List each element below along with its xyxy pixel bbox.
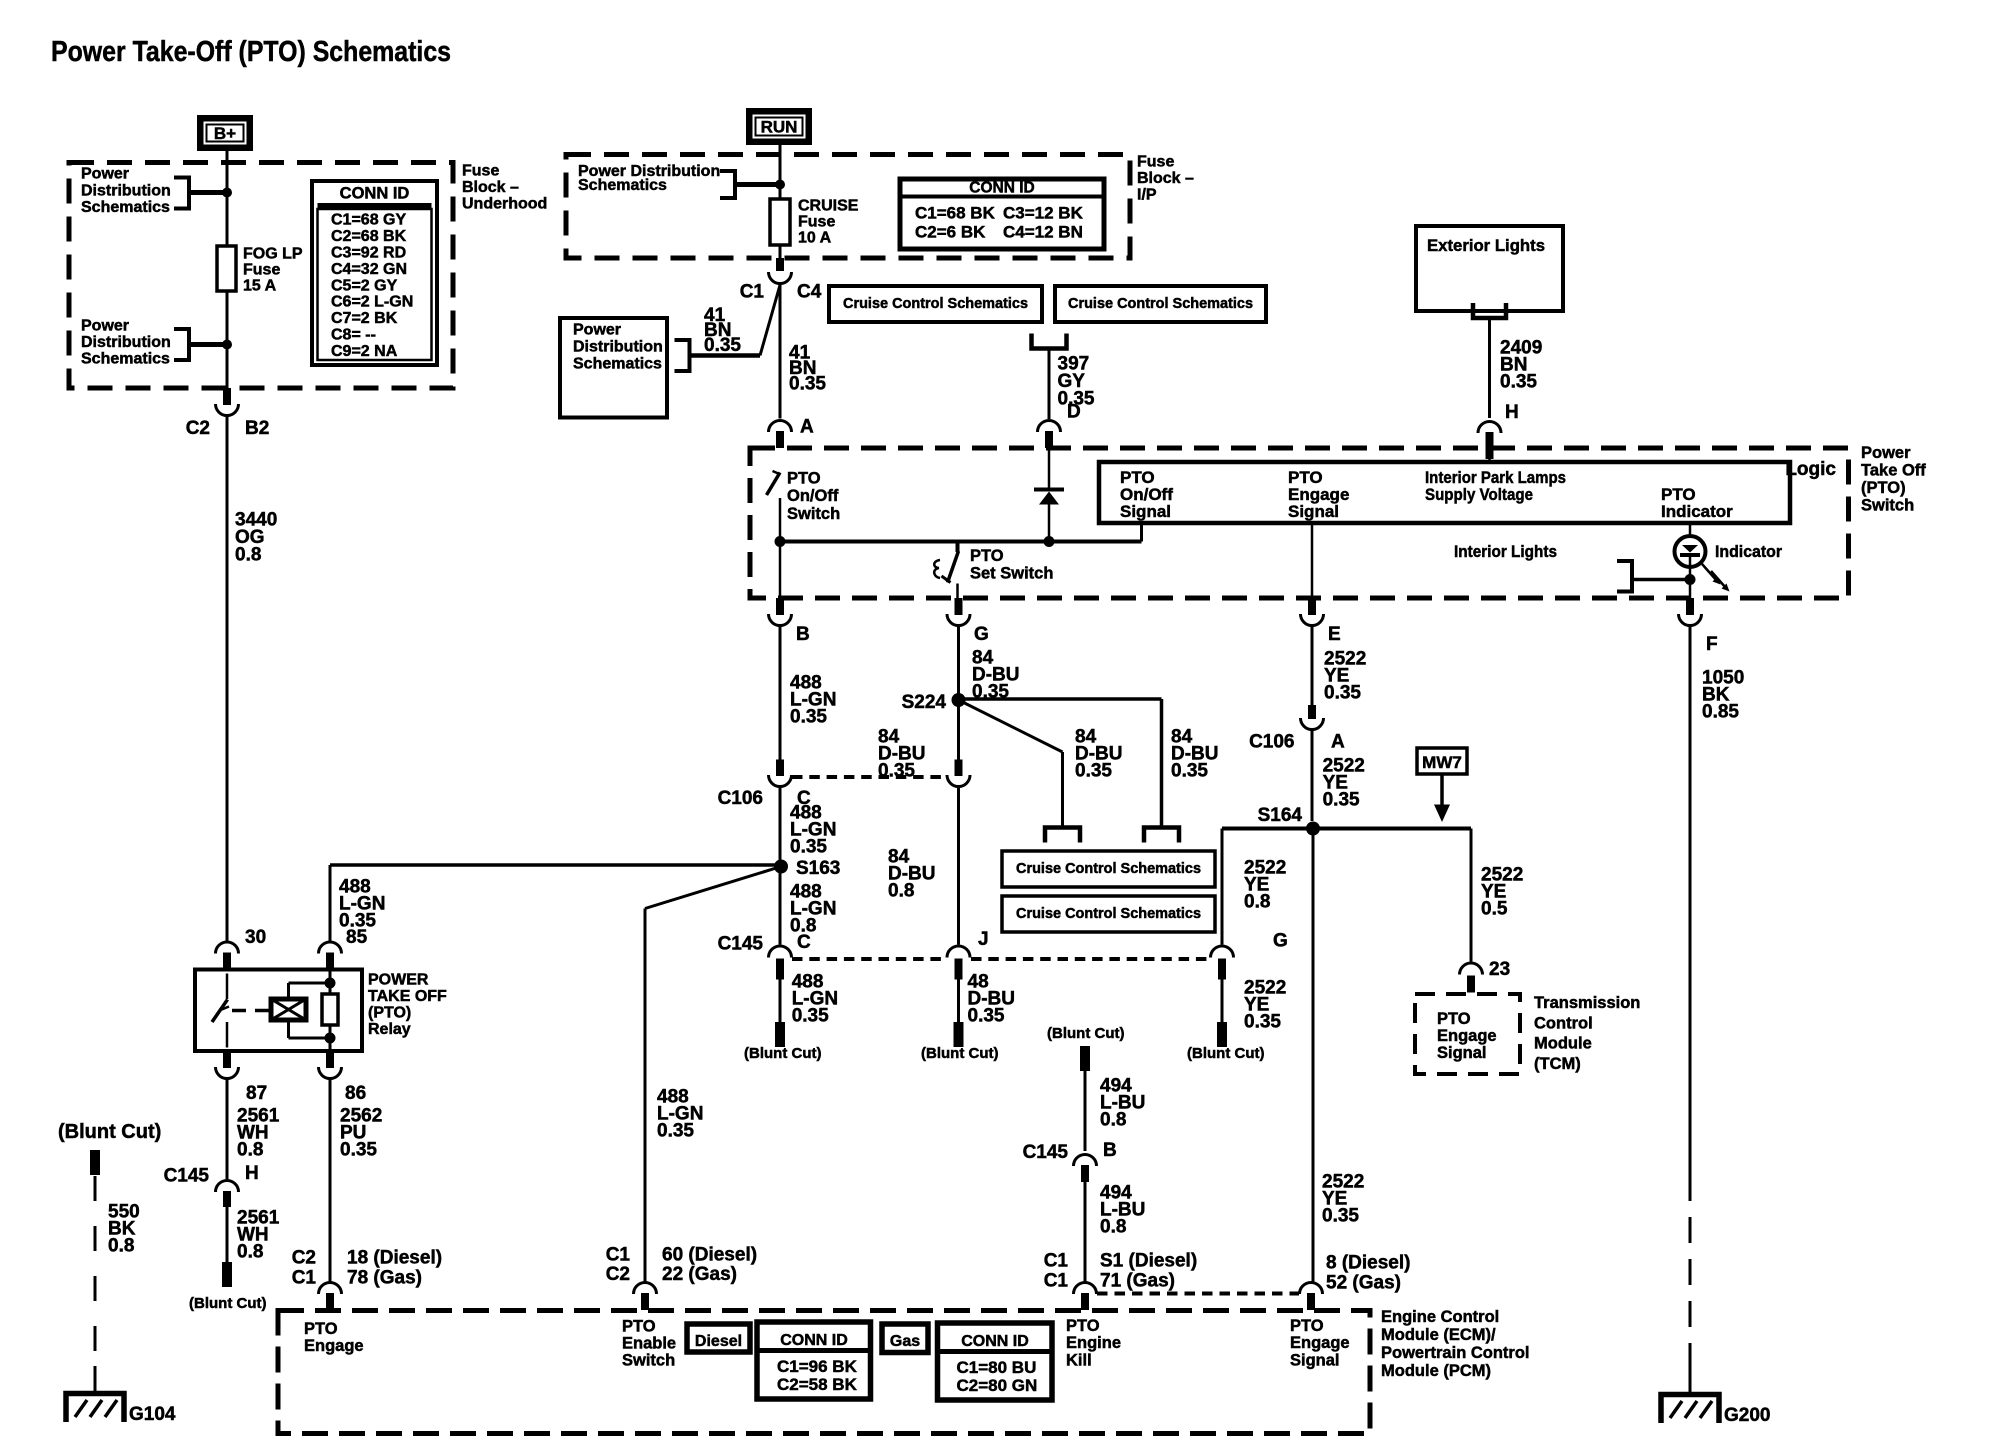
svg-text:C8= --: C8= --: [331, 327, 376, 344]
svg-text:Relay: Relay: [368, 1021, 411, 1038]
svg-text:Supply Voltage: Supply Voltage: [1425, 485, 1533, 504]
svg-text:FOG LP: FOG LP: [243, 246, 303, 263]
svg-text:C3=12 BK: C3=12 BK: [1003, 204, 1084, 223]
svg-text:CONN ID: CONN ID: [780, 1332, 848, 1349]
svg-text:(Blunt Cut): (Blunt Cut): [1187, 1045, 1264, 1062]
svg-text:0.35: 0.35: [657, 1121, 694, 1142]
svg-text:C1: C1: [1044, 1251, 1069, 1272]
svg-text:0.35: 0.35: [1500, 372, 1537, 393]
svg-text:H: H: [245, 1163, 259, 1184]
svg-text:On/Off: On/Off: [787, 487, 839, 505]
svg-text:Logic: Logic: [1785, 459, 1836, 480]
svg-text:Distribution: Distribution: [81, 334, 171, 351]
svg-text:I/P: I/P: [1137, 187, 1157, 204]
svg-text:78 (Gas): 78 (Gas): [347, 1268, 422, 1289]
svg-text:Cruise Control Schematics: Cruise Control Schematics: [1068, 296, 1253, 312]
svg-text:F: F: [1706, 634, 1718, 655]
svg-text:0.35: 0.35: [792, 1005, 829, 1026]
svg-text:B+: B+: [214, 124, 236, 143]
svg-text:Fuse: Fuse: [243, 262, 280, 279]
svg-text:Gas: Gas: [890, 1333, 920, 1350]
svg-text:S163: S163: [796, 858, 840, 879]
svg-text:Engine Control: Engine Control: [1381, 1308, 1499, 1326]
svg-text:A: A: [800, 417, 814, 438]
svg-text:Cruise Control Schematics: Cruise Control Schematics: [1016, 906, 1201, 922]
svg-text:0.35: 0.35: [704, 335, 741, 356]
svg-text:0.8: 0.8: [237, 1242, 263, 1263]
svg-text:G: G: [1273, 931, 1288, 952]
svg-text:Schematics: Schematics: [81, 351, 170, 368]
svg-text:30: 30: [245, 927, 266, 948]
svg-text:0.8: 0.8: [1100, 1110, 1126, 1131]
svg-text:(Blunt Cut): (Blunt Cut): [1047, 1025, 1124, 1042]
svg-text:Engage: Engage: [304, 1337, 364, 1355]
svg-text:C2=58 BK: C2=58 BK: [777, 1375, 858, 1394]
svg-text:C1: C1: [1044, 1271, 1069, 1292]
svg-text:C1: C1: [740, 282, 765, 303]
svg-text:D: D: [1067, 402, 1081, 423]
svg-text:CRUISE: CRUISE: [798, 198, 859, 215]
svg-text:G104: G104: [129, 1404, 176, 1425]
svg-text:Engage: Engage: [1290, 1334, 1350, 1352]
svg-text:Transmission: Transmission: [1534, 994, 1640, 1012]
svg-text:0.35: 0.35: [1244, 1012, 1281, 1033]
svg-text:87: 87: [246, 1083, 267, 1104]
svg-text:18 (Diesel): 18 (Diesel): [347, 1248, 442, 1269]
svg-text:POWER: POWER: [368, 972, 429, 989]
svg-text:C106: C106: [1249, 731, 1294, 752]
svg-text:Module: Module: [1534, 1035, 1592, 1053]
svg-text:0.8: 0.8: [235, 545, 261, 566]
svg-text:PTO: PTO: [1066, 1317, 1100, 1335]
svg-text:Set Switch: Set Switch: [970, 565, 1053, 583]
svg-text:PTO: PTO: [970, 547, 1004, 565]
svg-text:C6=2 L-GN: C6=2 L-GN: [331, 294, 413, 311]
svg-text:0.8: 0.8: [1100, 1217, 1126, 1238]
svg-text:0.35: 0.35: [878, 761, 915, 782]
svg-text:Powertrain Control: Powertrain Control: [1381, 1344, 1530, 1362]
svg-text:C2: C2: [186, 418, 210, 439]
svg-text:Cruise Control Schematics: Cruise Control Schematics: [1016, 861, 1201, 877]
svg-text:0.35: 0.35: [968, 1005, 1005, 1026]
svg-text:C4=12 BN: C4=12 BN: [1003, 223, 1083, 242]
svg-text:PTO: PTO: [622, 1317, 656, 1335]
svg-text:0.35: 0.35: [1075, 761, 1112, 782]
svg-text:C1=80 BU: C1=80 BU: [957, 1358, 1037, 1377]
svg-text:86: 86: [345, 1083, 366, 1104]
svg-text:Exterior Lights: Exterior Lights: [1427, 236, 1545, 255]
svg-text:CONN ID: CONN ID: [969, 180, 1034, 197]
svg-text:PTO: PTO: [787, 469, 821, 487]
svg-text:Power: Power: [81, 318, 129, 335]
svg-text:C2: C2: [606, 1264, 630, 1285]
svg-text:Schematics: Schematics: [578, 177, 667, 194]
svg-text:0.35: 0.35: [339, 911, 376, 932]
svg-text:G200: G200: [1724, 1405, 1770, 1426]
svg-text:C1=68 GY: C1=68 GY: [331, 212, 406, 229]
svg-text:C145: C145: [164, 1166, 210, 1187]
svg-text:G: G: [974, 624, 989, 645]
svg-text:C7=2 BK: C7=2 BK: [331, 310, 398, 327]
svg-text:PTO: PTO: [304, 1320, 338, 1338]
svg-text:C4=32 GN: C4=32 GN: [331, 261, 407, 278]
svg-text:Signal: Signal: [1288, 502, 1339, 521]
svg-text:S164: S164: [1258, 805, 1303, 826]
svg-text:Switch: Switch: [1861, 496, 1914, 514]
svg-text:C1=68 BK: C1=68 BK: [915, 204, 996, 223]
svg-text:0.35: 0.35: [789, 373, 826, 394]
svg-text:Module (ECM)/: Module (ECM)/: [1381, 1326, 1496, 1344]
svg-text:Diesel: Diesel: [695, 1333, 742, 1350]
svg-text:Cruise Control Schematics: Cruise Control Schematics: [843, 296, 1028, 312]
svg-text:C106: C106: [718, 788, 763, 809]
svg-text:0.8: 0.8: [1244, 892, 1270, 913]
svg-text:0.35: 0.35: [790, 707, 827, 728]
svg-text:Underhood: Underhood: [462, 196, 547, 213]
svg-text:C145: C145: [1023, 1142, 1069, 1163]
svg-text:(Blunt Cut): (Blunt Cut): [744, 1045, 821, 1062]
svg-text:0.35: 0.35: [1322, 1205, 1359, 1226]
svg-text:C4: C4: [797, 282, 822, 303]
svg-text:0.35: 0.35: [1323, 790, 1360, 811]
svg-text:0.85: 0.85: [1702, 702, 1739, 723]
svg-text:E: E: [1328, 624, 1341, 645]
svg-text:C2=6 BK: C2=6 BK: [915, 223, 986, 242]
svg-text:MW7: MW7: [1422, 753, 1462, 772]
svg-text:(Blunt Cut): (Blunt Cut): [921, 1045, 998, 1062]
svg-text:Fuse: Fuse: [798, 214, 835, 231]
svg-text:H: H: [1505, 402, 1519, 423]
svg-text:B2: B2: [245, 418, 269, 439]
svg-text:Schematics: Schematics: [573, 356, 662, 373]
svg-text:PTO: PTO: [1437, 1010, 1471, 1028]
svg-text:C2=68 BK: C2=68 BK: [331, 228, 407, 245]
svg-text:23: 23: [1489, 959, 1510, 980]
svg-text:0.35: 0.35: [340, 1140, 377, 1161]
svg-text:B: B: [1103, 1140, 1117, 1161]
svg-text:Indicator: Indicator: [1715, 542, 1782, 561]
svg-text:0.8: 0.8: [888, 881, 914, 902]
svg-text:TAKE OFF: TAKE OFF: [368, 988, 447, 1005]
svg-text:Fuse: Fuse: [1137, 154, 1174, 171]
svg-text:Control: Control: [1534, 1014, 1593, 1032]
svg-text:Switch: Switch: [787, 505, 840, 523]
svg-text:A: A: [1331, 731, 1345, 752]
svg-text:Power: Power: [1861, 444, 1911, 462]
svg-text:Distribution: Distribution: [573, 339, 663, 356]
svg-text:S1 (Diesel): S1 (Diesel): [1100, 1251, 1197, 1272]
svg-text:71 (Gas): 71 (Gas): [1100, 1271, 1175, 1292]
svg-text:Signal: Signal: [1290, 1351, 1340, 1369]
svg-text:B: B: [796, 624, 810, 645]
svg-text:0.35: 0.35: [1171, 761, 1208, 782]
svg-text:(Blunt Cut): (Blunt Cut): [189, 1295, 266, 1312]
svg-text:Power: Power: [573, 322, 621, 339]
svg-text:Signal: Signal: [1437, 1044, 1487, 1062]
svg-text:C5=2 GY: C5=2 GY: [331, 277, 398, 294]
svg-text:C: C: [797, 932, 811, 953]
svg-text:C145: C145: [718, 934, 764, 955]
svg-text:RUN: RUN: [761, 118, 798, 137]
svg-text:C2: C2: [292, 1248, 316, 1269]
svg-text:Fuse: Fuse: [462, 163, 499, 180]
svg-text:Take Off: Take Off: [1861, 461, 1926, 479]
svg-text:(PTO): (PTO): [368, 1005, 411, 1022]
svg-text:PTO: PTO: [1290, 1317, 1324, 1335]
svg-text:C9=2 NA: C9=2 NA: [331, 343, 398, 360]
svg-text:8 (Diesel): 8 (Diesel): [1326, 1253, 1410, 1274]
svg-text:15 A: 15 A: [243, 278, 277, 295]
svg-text:Block –: Block –: [1137, 170, 1194, 187]
svg-text:C1=96 BK: C1=96 BK: [777, 1357, 858, 1376]
svg-text:Switch: Switch: [622, 1352, 675, 1370]
svg-text:Engage: Engage: [1437, 1027, 1497, 1045]
svg-text:10 A: 10 A: [798, 230, 832, 247]
svg-text:CONN ID: CONN ID: [961, 1333, 1029, 1350]
svg-text:Block –: Block –: [462, 179, 519, 196]
svg-text:Interior Lights: Interior Lights: [1454, 542, 1557, 561]
svg-text:C2=80 GN: C2=80 GN: [957, 1376, 1038, 1395]
svg-text:(Blunt Cut): (Blunt Cut): [58, 1121, 161, 1143]
svg-text:22 (Gas): 22 (Gas): [662, 1264, 737, 1285]
svg-text:Enable: Enable: [622, 1335, 676, 1353]
svg-text:S224: S224: [902, 692, 947, 713]
svg-text:0.35: 0.35: [972, 682, 1009, 703]
svg-text:Indicator: Indicator: [1661, 502, 1733, 521]
svg-text:60 (Diesel): 60 (Diesel): [662, 1245, 757, 1266]
svg-text:C1: C1: [606, 1245, 631, 1266]
svg-text:0.8: 0.8: [108, 1236, 134, 1257]
svg-text:Power: Power: [81, 166, 129, 183]
svg-text:0.5: 0.5: [1481, 899, 1508, 920]
svg-text:Module (PCM): Module (PCM): [1381, 1362, 1491, 1380]
svg-text:0.35: 0.35: [1324, 683, 1361, 704]
svg-text:Engine: Engine: [1066, 1334, 1121, 1352]
svg-text:Power Take-Off (PTO) Schematic: Power Take-Off (PTO) Schematics: [51, 36, 451, 68]
svg-text:(PTO): (PTO): [1861, 479, 1906, 497]
svg-text:52 (Gas): 52 (Gas): [1326, 1273, 1401, 1294]
svg-text:C3=92 RD: C3=92 RD: [331, 245, 406, 262]
svg-text:CONN ID: CONN ID: [340, 185, 410, 203]
svg-text:C1: C1: [292, 1268, 317, 1289]
svg-text:Schematics: Schematics: [81, 199, 170, 216]
svg-text:J: J: [978, 929, 989, 950]
svg-text:Kill: Kill: [1066, 1351, 1092, 1369]
svg-text:0.8: 0.8: [237, 1140, 263, 1161]
svg-text:Distribution: Distribution: [81, 182, 171, 199]
svg-text:(TCM): (TCM): [1534, 1055, 1581, 1073]
svg-text:0.35: 0.35: [790, 836, 827, 857]
svg-text:Signal: Signal: [1120, 502, 1171, 521]
